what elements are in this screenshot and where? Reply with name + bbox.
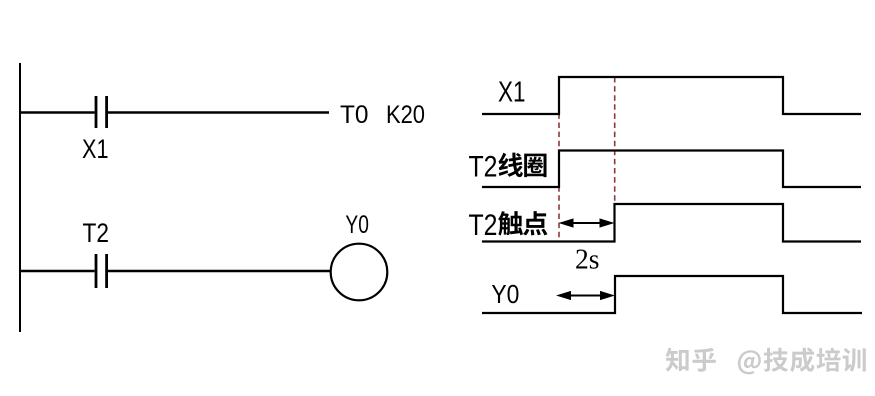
dimension arrow 2s (between t1 and t2) (559, 218, 615, 227)
coil Y0 (output circle) (331, 244, 388, 301)
svg-text:T0: T0 (340, 101, 369, 129)
svg-text:X1: X1 (82, 134, 109, 164)
wire rung2 left segment (19, 270, 95, 272)
svg-text:T2: T2 (469, 209, 498, 242)
waveform T2 contact (482, 204, 861, 242)
waveform X1 (482, 77, 861, 114)
label T2触点 (T2 contact) (469, 209, 548, 242)
wire rung2 right segment (108, 270, 331, 272)
svg-text:Y0: Y0 (491, 279, 519, 309)
dimension arrow Y0 delay (556, 291, 615, 300)
svg-text:Y0: Y0 (345, 211, 369, 239)
contact X1 (96, 96, 107, 128)
wire rung1 right segment (108, 111, 329, 113)
watermark 知乎 @技成培训 (666, 348, 866, 375)
waveform Y0 (482, 276, 862, 313)
svg-text:K20: K20 (386, 101, 425, 129)
svg-text:X1: X1 (498, 77, 526, 109)
red dashed marker line t1 (558, 77, 560, 241)
red dashed marker line t2 (614, 77, 616, 241)
left power rail (19, 63, 21, 332)
svg-text:2s: 2s (575, 244, 600, 276)
waveform T2 coil (482, 151, 861, 188)
contact T2 (96, 254, 107, 288)
svg-text:T2: T2 (83, 218, 110, 248)
label T2线圈 (T2 coil) (469, 151, 547, 184)
svg-text:T2: T2 (469, 151, 498, 184)
wire rung1 left segment (19, 111, 95, 113)
